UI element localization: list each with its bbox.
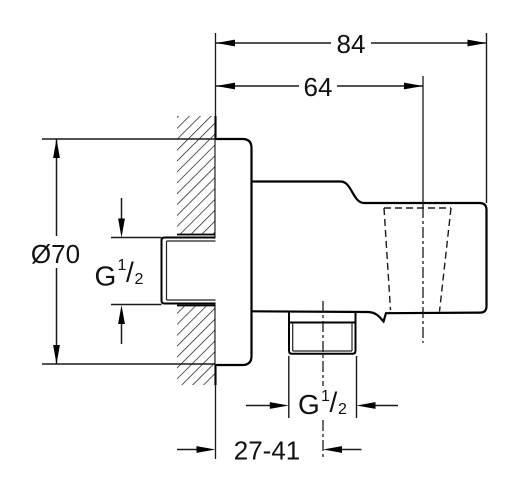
flange (escutcheon) (216, 139, 252, 365)
dimension d70 line (56, 139, 58, 236)
inlet thread dim extension lines (111, 237, 162, 239)
svg-text:2: 2 (135, 271, 144, 288)
body outline top (252, 182, 487, 322)
inlet thread root lines (167, 240, 216, 242)
svg-text:/: / (330, 387, 338, 418)
extension lines diameter 70 (42, 138, 216, 140)
wall hatching lower (177, 306, 215, 386)
svg-text:84: 84 (337, 29, 366, 59)
svg-text:/: / (126, 257, 134, 288)
wall hole top edge (177, 234, 216, 236)
wall line (215, 33, 217, 459)
dimension 64 arrows (216, 83, 235, 90)
outlet G1/2 label (298, 387, 347, 421)
svg-text:2: 2 (338, 401, 347, 418)
dimension 64 line (216, 85, 299, 87)
outlet neck left (288, 312, 290, 324)
svg-text:G: G (298, 389, 320, 420)
svg-text:Ø70: Ø70 (31, 239, 80, 269)
svg-text:64: 64 (304, 72, 333, 102)
dimension 84 line (216, 42, 331, 44)
dimension 27-41 arrows (177, 449, 200, 451)
inlet thread dim arrows (121, 198, 123, 222)
outlet thread dim extension lines (288, 356, 290, 418)
inlet G1/2 label (95, 257, 144, 292)
wall hatching upper (177, 116, 215, 235)
holder cone hidden (dashed) (384, 208, 451, 312)
dimension d70 arrows (53, 139, 60, 158)
svg-text:G: G (95, 261, 117, 292)
dimension 84 arrows (216, 40, 235, 47)
svg-text:27-41: 27-41 (234, 436, 301, 466)
extension line right edge (84) (486, 33, 488, 203)
holder centerline (422, 76, 424, 207)
outlet thread dim arrows (246, 405, 272, 407)
inlet thread G1/2 body (left) (162, 238, 216, 304)
outlet thread G1/2 (bottom) (289, 323, 356, 354)
outlet neck right (355, 312, 357, 323)
outlet thread root lines (292, 323, 294, 352)
outlet centerline (322, 301, 324, 386)
inlet thread chamfer line (166, 241, 168, 300)
wall hole bottom edge (177, 305, 216, 307)
